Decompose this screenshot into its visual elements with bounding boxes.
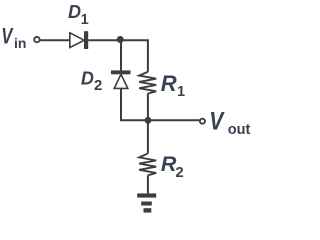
svg-text:1: 1	[177, 84, 185, 100]
svg-text:V: V	[209, 107, 224, 135]
svg-text:R: R	[161, 71, 177, 96]
svg-text:out: out	[228, 122, 251, 138]
svg-text:1: 1	[81, 12, 89, 28]
svg-text:D: D	[81, 68, 94, 88]
svg-text:D: D	[68, 2, 81, 22]
svg-text:V: V	[1, 24, 14, 49]
svg-text:in: in	[14, 35, 26, 51]
svg-text:2: 2	[94, 77, 102, 94]
svg-text:2: 2	[175, 164, 183, 181]
